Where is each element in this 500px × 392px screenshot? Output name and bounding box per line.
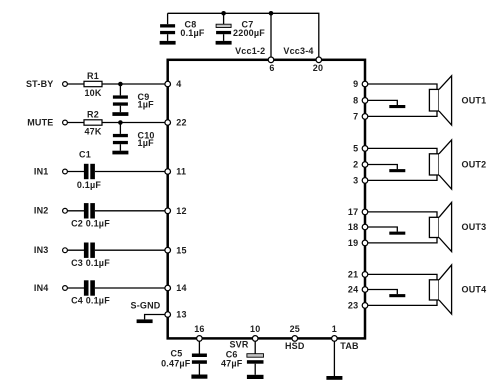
net label SVR — [229, 340, 248, 350]
net label IN2 — [34, 206, 49, 216]
ground bar below C10 — [112, 151, 128, 155]
label C8 — [185, 20, 197, 30]
wire IN3 to C3 — [68, 249, 84, 251]
svg-text:IN2: IN2 — [34, 206, 49, 216]
net label HSD — [285, 341, 305, 351]
svg-text:17: 17 — [348, 207, 358, 217]
net label ST-BY — [26, 79, 54, 89]
svg-text:Vcc1-2: Vcc1-2 — [235, 46, 265, 56]
ground bar OUT3 loop — [389, 232, 405, 235]
svg-text:ST-BY: ST-BY — [26, 79, 54, 89]
net label OUT3 — [462, 222, 487, 232]
svg-text:1µF: 1µF — [138, 100, 155, 110]
svg-text:47K: 47K — [84, 126, 101, 136]
svg-text:1: 1 — [332, 324, 337, 334]
label C9 — [138, 92, 150, 102]
capacitor C1 — [84, 164, 95, 179]
speaker OUT4 — [429, 265, 451, 314]
net label IN1 — [34, 166, 49, 176]
pin 9 — [353, 79, 368, 89]
pin 10 — [250, 324, 260, 341]
pin 11 — [165, 167, 186, 177]
svg-text:C5: C5 — [171, 349, 183, 359]
value C1 0.1µF — [77, 180, 101, 190]
label R2 — [87, 109, 99, 119]
svg-text:HSD: HSD — [285, 341, 305, 351]
wire C10 top lead — [119, 123, 121, 134]
net label IN3 — [34, 245, 49, 255]
capacitor C2 — [84, 203, 95, 218]
svg-text:20: 20 — [313, 63, 323, 73]
pin 12 — [165, 206, 187, 216]
terminal IN1 — [63, 169, 68, 174]
svg-text:11: 11 — [176, 167, 186, 177]
wire OUT2 bottom (pin to speaker) — [365, 175, 437, 180]
value C4 0.1µF — [71, 296, 110, 306]
wire TAB to ground — [333, 341, 335, 376]
wire IN4 to C4 — [68, 287, 84, 289]
svg-text:2200µF: 2200µF — [233, 28, 265, 38]
svg-text:1µF: 1µF — [138, 138, 155, 148]
svg-text:18: 18 — [348, 222, 358, 232]
wire OUT1 middle (pin to ground) — [365, 100, 397, 105]
speaker OUT1 — [429, 76, 451, 125]
wire ST-BY to R1 — [68, 83, 84, 85]
svg-text:C1: C1 — [79, 150, 91, 160]
wire OUT4 bottom (pin to speaker) — [365, 300, 437, 305]
svg-text:C4 0.1µF: C4 0.1µF — [71, 296, 110, 306]
wire C9 top lead — [119, 84, 121, 95]
wire pin 13 to S-GND — [145, 315, 166, 320]
ground bar below C9 — [112, 112, 128, 116]
pin 24 — [348, 285, 368, 295]
svg-text:24: 24 — [348, 285, 358, 295]
svg-text:10: 10 — [250, 324, 260, 334]
wire OUT2 middle (pin to ground) — [365, 165, 397, 170]
pin 3 — [353, 176, 368, 186]
wire OUT4 middle (pin to ground) — [365, 290, 397, 295]
ground bar below C7 — [216, 41, 232, 45]
svg-text:S-GND: S-GND — [131, 301, 161, 311]
wire C1 to IC — [95, 171, 166, 173]
svg-text:19: 19 — [348, 238, 358, 248]
value R2 47K — [84, 126, 101, 136]
label C6 — [226, 349, 238, 359]
wire C4 to IC — [95, 287, 166, 289]
capacitor C9 — [113, 95, 128, 112]
svg-text:15: 15 — [176, 245, 186, 255]
wire IN2 to C2 — [68, 210, 84, 212]
junction C7 top — [221, 11, 226, 16]
ground bar OUT2 loop — [389, 169, 405, 172]
svg-text:12: 12 — [176, 206, 186, 216]
speaker OUT3 — [429, 202, 451, 251]
wire OUT1 top (pin to speaker) — [365, 84, 437, 89]
wire OUT2 top (pin to speaker) — [365, 148, 437, 153]
svg-text:OUT1: OUT1 — [462, 95, 487, 105]
svg-text:Vcc3-4: Vcc3-4 — [283, 46, 313, 56]
svg-text:9: 9 — [353, 79, 358, 89]
net label Vcc1-2 — [235, 46, 265, 56]
ground bar TAB — [326, 376, 342, 380]
svg-text:0.1µF: 0.1µF — [180, 28, 204, 38]
capacitor C10 — [113, 134, 128, 151]
svg-text:0.47µF: 0.47µF — [161, 359, 191, 369]
pin 17 — [348, 207, 368, 217]
terminal IN2 — [63, 208, 68, 213]
value C6 47µF — [221, 359, 243, 369]
svg-text:IN4: IN4 — [34, 283, 49, 293]
wire OUT3 top (pin to speaker) — [365, 212, 437, 217]
pin 8 — [353, 96, 368, 106]
resistor R1 — [84, 81, 102, 86]
net label IN4 — [34, 283, 49, 293]
pin 7 — [353, 112, 368, 122]
pin 2 — [353, 160, 368, 170]
label C7 — [242, 20, 254, 30]
svg-text:13: 13 — [176, 310, 186, 320]
pin 23 — [348, 301, 368, 311]
junction ST-BY/C9 — [118, 82, 123, 87]
ground bar below C5 — [191, 375, 207, 379]
value R1 10K — [84, 88, 101, 98]
svg-text:7: 7 — [353, 112, 358, 122]
wire OUT4 top (pin to speaker) — [365, 274, 437, 279]
svg-text:25: 25 — [290, 324, 300, 334]
svg-text:2: 2 — [353, 160, 358, 170]
svg-text:C3 0.1µF: C3 0.1µF — [71, 258, 110, 268]
net label OUT2 — [462, 159, 487, 169]
wire OUT1 bottom (pin to speaker) — [365, 111, 437, 116]
label C1 — [79, 150, 91, 160]
svg-text:0.1µF: 0.1µF — [77, 180, 101, 190]
svg-text:14: 14 — [176, 283, 186, 293]
wire MUTE to R2 — [68, 122, 84, 124]
pin 19 — [348, 238, 368, 248]
label C10 — [138, 131, 155, 141]
value C3 0.1µF — [71, 258, 110, 268]
svg-text:6: 6 — [269, 63, 274, 73]
value C5 0.47µF — [161, 359, 191, 369]
wire pin 6 branch — [270, 13, 272, 57]
pin 18 — [348, 222, 368, 232]
junction MUTE/C10 — [118, 120, 123, 125]
ground bar below C8 — [160, 41, 176, 45]
svg-text:21: 21 — [348, 270, 358, 280]
wire C6 top lead — [254, 341, 256, 353]
net label OUT1 — [462, 95, 487, 105]
wire C8 top lead — [167, 13, 169, 24]
wire C5 top lead — [198, 341, 200, 353]
junction pin 6 branch — [269, 11, 274, 16]
pin 1 — [332, 324, 338, 341]
svg-text:OUT4: OUT4 — [462, 284, 487, 294]
terminal MUTE — [63, 120, 68, 125]
svg-text:R2: R2 — [87, 109, 99, 119]
wire C2 to IC — [95, 210, 166, 212]
value C2 0.1µF — [71, 219, 110, 229]
svg-text:IN3: IN3 — [34, 245, 49, 255]
capacitor C5 — [192, 354, 207, 375]
svg-text:OUT3: OUT3 — [462, 222, 487, 232]
value C9 1µF — [138, 100, 155, 110]
ground bar OUT1 loop — [389, 105, 405, 108]
svg-text:OUT2: OUT2 — [462, 159, 487, 169]
wire R1 to pin 4 — [102, 83, 166, 85]
terminal IN3 — [63, 248, 68, 253]
ground bar S-GND — [137, 319, 153, 323]
wire R2 to pin 22 — [102, 122, 166, 124]
svg-text:TAB: TAB — [340, 341, 359, 351]
wire top supply rail — [168, 13, 319, 57]
pin 5 — [353, 144, 368, 154]
svg-text:SVR: SVR — [229, 340, 248, 350]
svg-text:C2 0.1µF: C2 0.1µF — [71, 219, 110, 229]
net label S-GND — [131, 301, 161, 311]
svg-text:22: 22 — [176, 118, 186, 128]
capacitor C8 — [160, 24, 175, 41]
svg-text:R1: R1 — [87, 71, 99, 81]
label R1 — [87, 71, 99, 81]
capacitor C6 — [247, 354, 264, 375]
net label Vcc3-4 — [283, 46, 313, 56]
capacitor C7 — [216, 24, 231, 41]
terminal IN4 — [63, 286, 68, 291]
pin 25 — [290, 324, 300, 341]
pin 22 — [165, 118, 187, 128]
capacitor C3 — [84, 243, 95, 258]
svg-text:3: 3 — [353, 176, 358, 186]
pin 6 — [268, 57, 274, 73]
svg-text:IN1: IN1 — [34, 166, 49, 176]
net label TAB — [340, 341, 359, 351]
pin 20 — [313, 57, 323, 73]
pin 4 — [165, 79, 182, 89]
capacitor C4 — [84, 280, 95, 295]
wire C7 top lead — [223, 13, 225, 24]
ground bar OUT4 loop — [389, 294, 405, 297]
svg-text:16: 16 — [194, 324, 204, 334]
value C8 0.1µF — [180, 28, 204, 38]
net label MUTE — [27, 117, 53, 127]
svg-text:MUTE: MUTE — [27, 117, 53, 127]
pin 13 — [165, 310, 187, 320]
speaker OUT2 — [429, 140, 451, 189]
wire C3 to IC — [95, 249, 166, 251]
resistor R2 — [84, 120, 102, 125]
IC U1 outline — [168, 60, 365, 339]
svg-text:23: 23 — [348, 301, 358, 311]
svg-text:5: 5 — [353, 144, 358, 154]
wire IN1 to C1 — [68, 171, 84, 173]
wire OUT3 middle (pin to ground) — [365, 227, 397, 232]
svg-text:10K: 10K — [84, 88, 101, 98]
pin 16 — [194, 324, 204, 341]
pin 15 — [165, 245, 187, 255]
label C5 — [171, 349, 183, 359]
svg-text:47µF: 47µF — [221, 359, 243, 369]
wire OUT3 bottom (pin to speaker) — [365, 238, 437, 243]
pin 14 — [165, 283, 187, 293]
svg-text:4: 4 — [176, 79, 181, 89]
value C10 1µF — [138, 138, 155, 148]
net label OUT4 — [462, 284, 487, 294]
pin 21 — [348, 270, 368, 280]
value C7 2200µF — [233, 28, 265, 38]
terminal ST-BY — [63, 82, 68, 87]
svg-text:8: 8 — [353, 96, 358, 106]
ground bar below C6 — [247, 375, 264, 379]
